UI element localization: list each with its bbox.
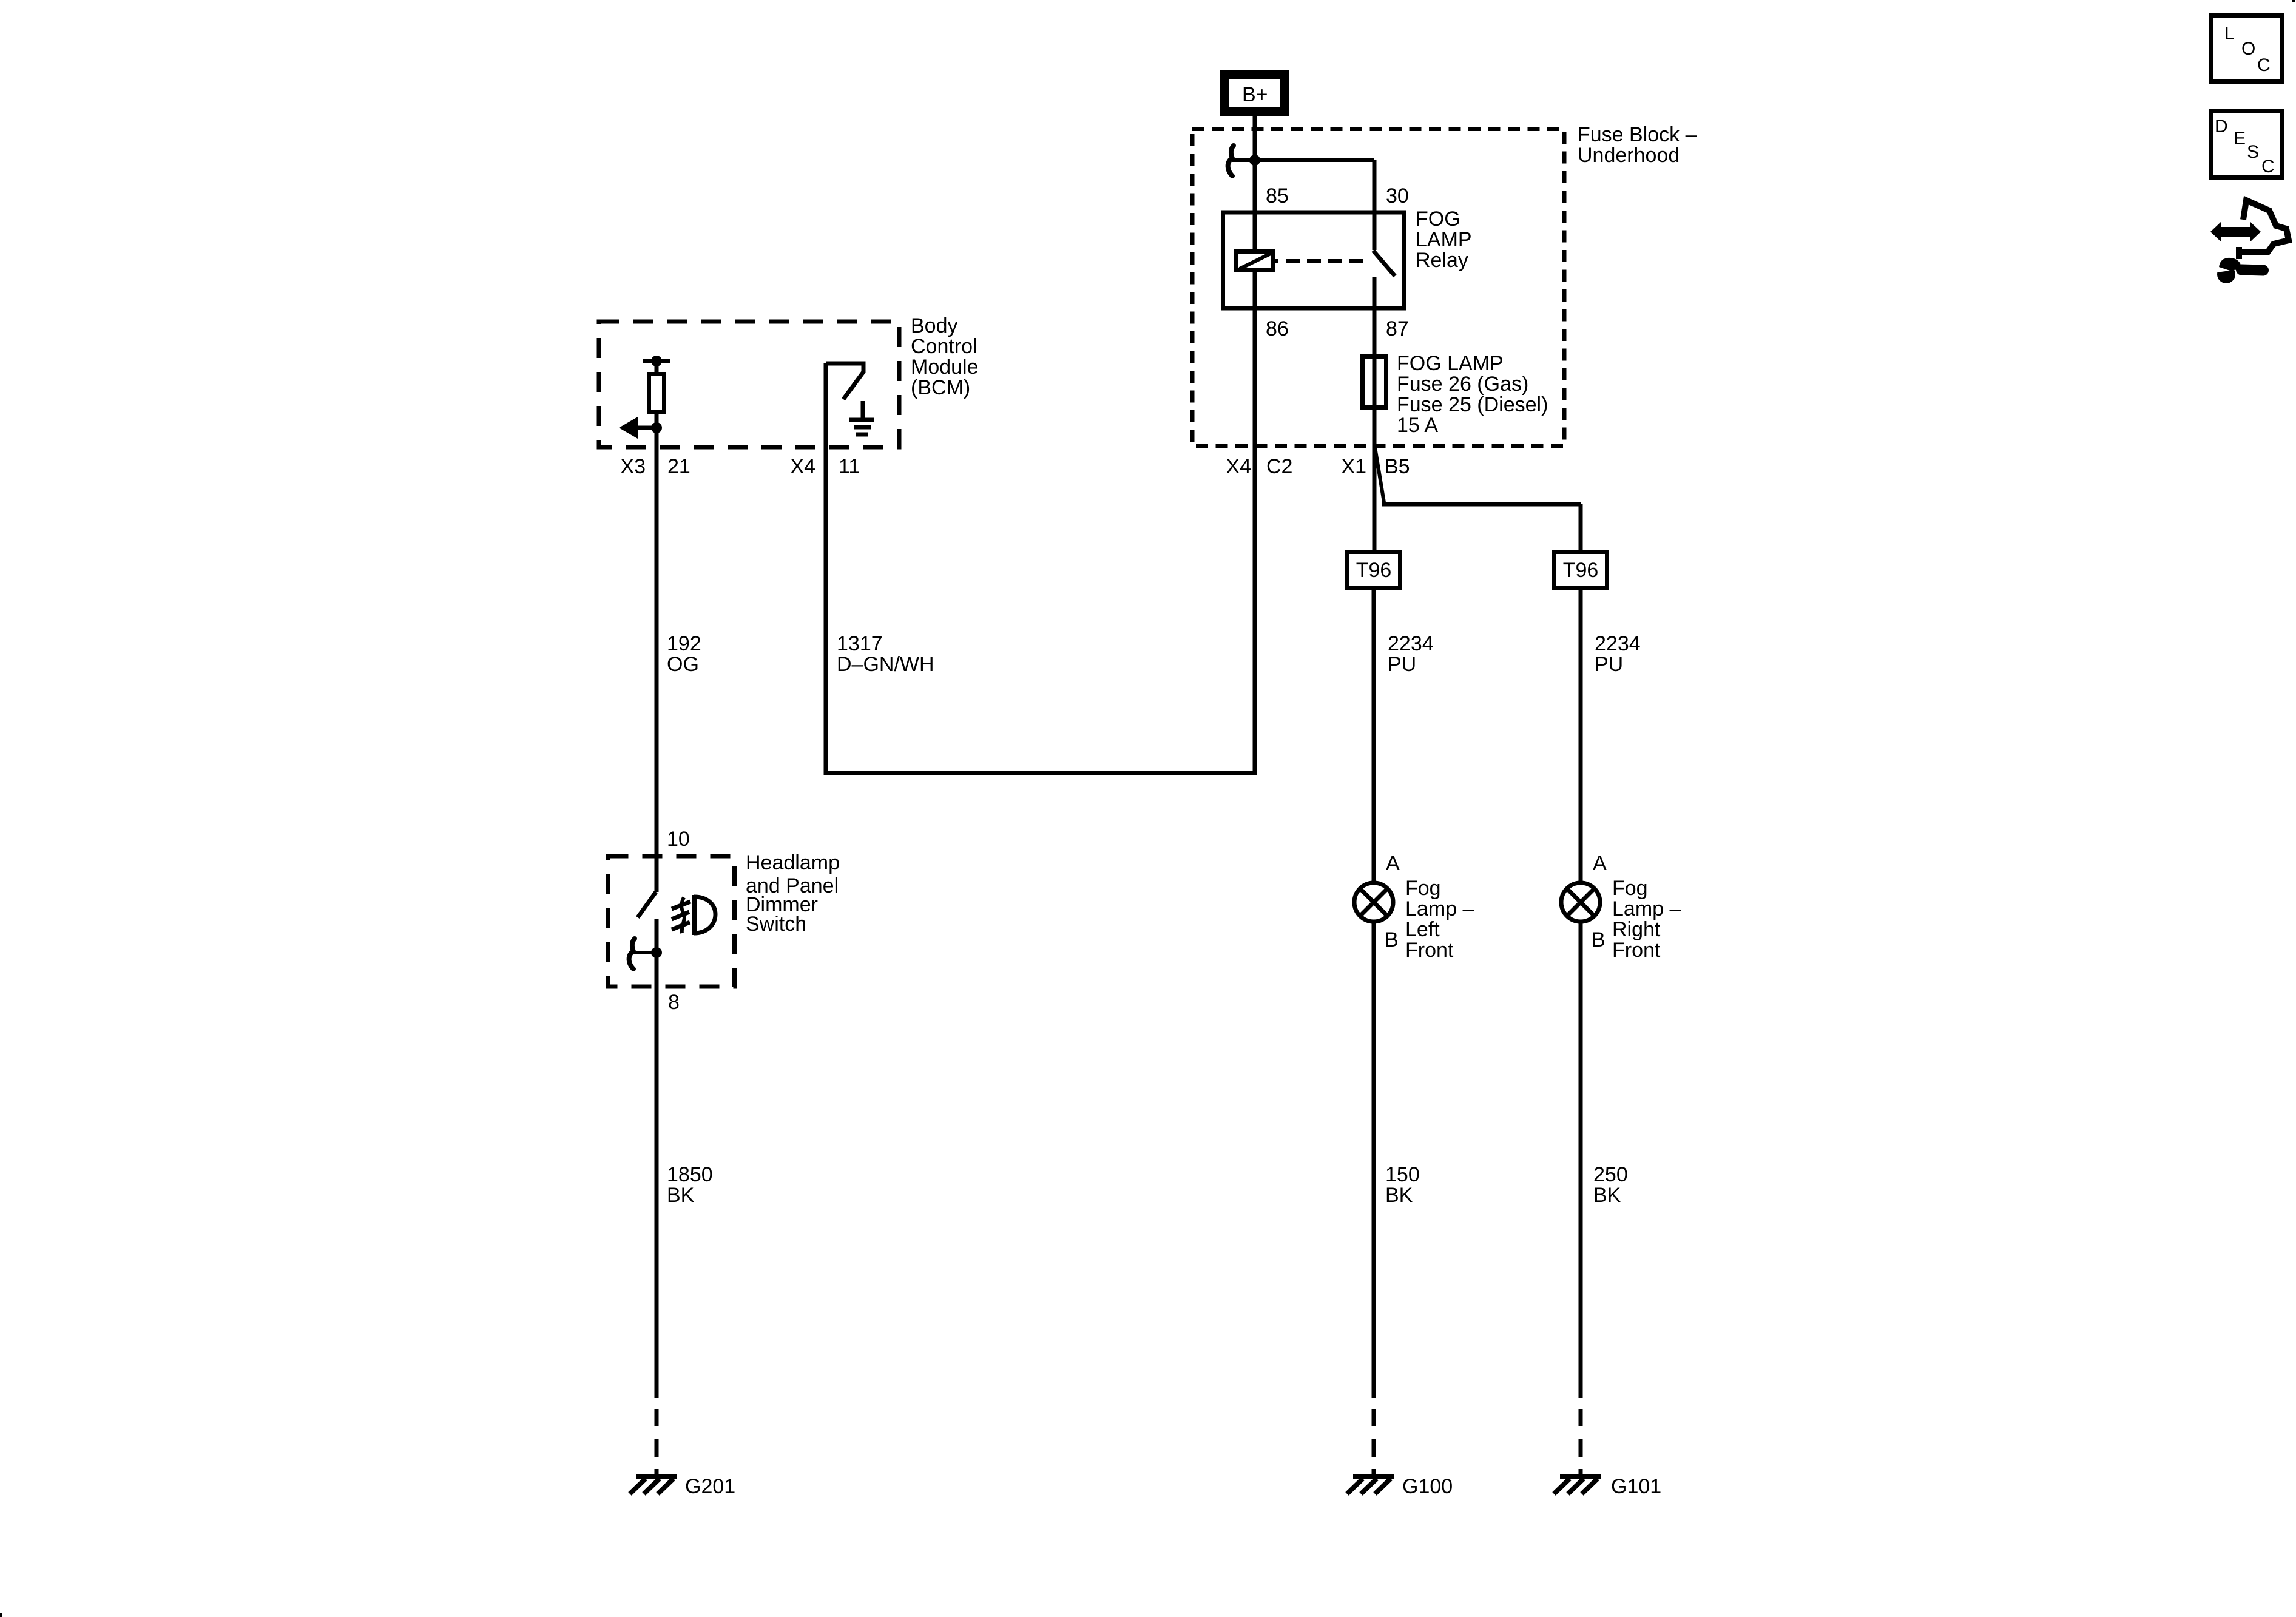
svg-text:E: E <box>2234 129 2246 149</box>
svg-text:FOG: FOG <box>1416 208 1460 231</box>
service icon: connector outline <box>2239 200 2289 259</box>
svg-text:C: C <box>2257 55 2271 75</box>
svg-text:11: 11 <box>839 455 860 478</box>
svg-text:Body: Body <box>911 314 958 337</box>
node on supply bar <box>651 356 662 366</box>
page corner mark (top right) <box>2292 0 2295 2</box>
wire right lamp to ground G101 <box>1579 923 1583 1398</box>
connector label X4 11 <box>790 455 860 478</box>
svg-text:BK: BK <box>1385 1184 1413 1207</box>
svg-text:X1: X1 <box>1341 455 1366 478</box>
svg-text:LAMP: LAMP <box>1416 228 1472 251</box>
wire from B+ down to relay coil <box>1253 116 1257 249</box>
svg-text:Fuse 25 (Diesel): Fuse 25 (Diesel) <box>1397 393 1548 416</box>
service icon: wrench <box>2215 258 2263 283</box>
ground G101 <box>1554 1477 1601 1494</box>
svg-text:PU: PU <box>1388 653 1416 676</box>
wire T96 to right fog lamp <box>1579 590 1583 882</box>
svg-text:OG: OG <box>667 653 699 676</box>
svg-text:Headlamp: Headlamp <box>746 851 840 874</box>
svg-text:G101: G101 <box>1611 1475 1661 1498</box>
wire down to right T96 <box>1579 504 1583 550</box>
wire from relay 87 through fuse to T96 <box>1373 311 1377 550</box>
svg-text:D: D <box>2215 116 2228 137</box>
svg-text:1850: 1850 <box>667 1163 713 1186</box>
svg-text:C: C <box>2261 157 2275 177</box>
svg-text:Front: Front <box>1612 939 1661 962</box>
svg-text:Left: Left <box>1405 918 1440 941</box>
svg-text:B: B <box>1592 928 1606 951</box>
connector label X1 B5 <box>1341 455 1410 478</box>
node: junction on B+ feed <box>1249 155 1260 166</box>
resistor (BCM pull-up) <box>649 374 664 413</box>
label circuit 192 OG <box>667 632 701 676</box>
svg-text:250: 250 <box>1593 1163 1628 1186</box>
connector label X3 21 <box>620 455 690 478</box>
svg-text:X4: X4 <box>1226 455 1251 478</box>
svg-text:B+: B+ <box>1242 83 1268 106</box>
relay switch blade <box>1373 251 1395 276</box>
svg-text:(BCM): (BCM) <box>911 376 970 399</box>
splice T96 (right) <box>1555 552 1607 588</box>
splice T96 (left) <box>1348 552 1400 588</box>
svg-text:2234: 2234 <box>1388 632 1434 655</box>
wire left lamp to ground G100 <box>1372 923 1376 1398</box>
svg-text:A: A <box>1386 852 1400 875</box>
label: Body Control Module (BCM) <box>911 314 979 399</box>
label circuit 2234 PU (left) <box>1388 632 1434 676</box>
svg-text:X3: X3 <box>620 455 646 478</box>
svg-text:T96: T96 <box>1356 559 1392 582</box>
label circuit 150 BK <box>1385 1163 1420 1207</box>
svg-text:D–GN/WH: D–GN/WH <box>837 653 934 676</box>
svg-text:2234: 2234 <box>1595 632 1641 655</box>
svg-text:Fuse Block –: Fuse Block – <box>1578 123 1697 146</box>
node: BCM sense junction <box>651 422 662 433</box>
svg-text:Fuse 26 (Gas): Fuse 26 (Gas) <box>1397 373 1528 396</box>
svg-text:B: B <box>1385 928 1399 951</box>
svg-text:21: 21 <box>667 455 690 478</box>
svg-text:G100: G100 <box>1402 1475 1453 1498</box>
fuse block internal bus wire (horizontal) <box>1232 158 1374 162</box>
wire BCM pin 21 down to headlamp switch <box>655 428 659 892</box>
service icon: double arrow <box>2210 221 2261 242</box>
ground G201 <box>630 1477 677 1494</box>
wire from relay coil 86 down (pin C2) <box>1253 272 1257 775</box>
svg-text:G201: G201 <box>685 1475 735 1498</box>
svg-text:Fog: Fog <box>1612 877 1648 900</box>
relay box U: FOG LAMP Relay <box>1223 212 1405 308</box>
clip symbol (switch internal) <box>629 939 635 969</box>
svg-text:S: S <box>2247 142 2259 162</box>
svg-text:85: 85 <box>1266 184 1289 208</box>
wire T96 to left fog lamp <box>1372 590 1376 882</box>
wire resistor to junction <box>655 413 659 430</box>
BCM internal ground <box>849 401 874 434</box>
svg-text:1317: 1317 <box>837 632 883 655</box>
label circuit 1850 BK <box>667 1163 713 1207</box>
svg-text:87: 87 <box>1386 317 1409 340</box>
wire branch to right fog lamp <box>1382 502 1581 507</box>
relay coil <box>1237 252 1273 270</box>
svg-text:30: 30 <box>1386 184 1409 208</box>
ground G100 <box>1347 1477 1394 1494</box>
svg-text:Front: Front <box>1405 939 1454 962</box>
signal arrow (to BCM logic) <box>619 417 657 439</box>
node: switch output junction <box>651 947 662 958</box>
BCM internal supply bar <box>643 359 670 363</box>
label circuit 2234 PU (right) <box>1595 632 1641 676</box>
wire switch contact down to G201 <box>655 919 659 1398</box>
svg-text:150: 150 <box>1385 1163 1420 1186</box>
relay fixed contact <box>1373 277 1377 311</box>
legend LOC box <box>2211 16 2282 82</box>
headlamp switch dashed box <box>609 856 735 987</box>
fog lamp right front E2 <box>1561 883 1600 922</box>
label: FOG LAMP fuse <box>1397 352 1548 437</box>
fuse FOG LAMP 15A <box>1363 357 1386 408</box>
svg-text:B5: B5 <box>1385 455 1410 478</box>
svg-text:C2: C2 <box>1266 455 1292 478</box>
svg-text:Fog: Fog <box>1405 877 1441 900</box>
label: FOG LAMP Relay <box>1416 208 1472 272</box>
BCM internal switch to ground <box>826 363 863 775</box>
wire dashed segment to G201 <box>655 1409 659 1476</box>
wire pin 30 into relay <box>1373 160 1377 250</box>
label: Headlamp and Panel Dimmer Switch <box>746 851 840 936</box>
fog lamp left front E1 <box>1354 883 1393 922</box>
label circuit 1317 D-GN/WH <box>837 632 934 676</box>
clip symbol (bus attachment) <box>1228 146 1234 176</box>
svg-text:15 A: 15 A <box>1397 414 1438 437</box>
svg-text:Switch: Switch <box>746 913 806 936</box>
svg-text:T96: T96 <box>1563 559 1599 582</box>
svg-text:Underhood: Underhood <box>1578 144 1680 167</box>
label: Fog Lamp - Left Front <box>1405 877 1474 962</box>
label circuit 250 BK <box>1593 1163 1628 1207</box>
svg-text:192: 192 <box>667 632 701 655</box>
wire splice kink below B5 <box>1375 447 1384 502</box>
svg-text:BK: BK <box>1593 1184 1621 1207</box>
wire dashed segment to G100 <box>1372 1409 1376 1476</box>
relay actuation link (dashed) <box>1275 259 1369 263</box>
wire bar to resistor <box>655 361 659 374</box>
label: Fog Lamp - Right Front <box>1612 877 1681 962</box>
svg-text:O: O <box>2241 39 2255 59</box>
legend DESC box <box>2211 111 2282 178</box>
svg-text:BK: BK <box>667 1184 695 1207</box>
svg-text:10: 10 <box>667 828 690 851</box>
svg-text:X4: X4 <box>790 455 815 478</box>
svg-text:A: A <box>1593 852 1607 875</box>
svg-text:Relay: Relay <box>1416 249 1468 272</box>
page corner mark (bottom left) <box>0 1613 2 1617</box>
svg-text:Control: Control <box>911 335 977 358</box>
svg-text:86: 86 <box>1266 317 1289 340</box>
svg-text:Lamp –: Lamp – <box>1612 897 1681 920</box>
fog lamp icon in switch <box>672 895 715 935</box>
power symbol B+ <box>1224 75 1285 112</box>
internal stub wire <box>633 951 657 954</box>
svg-text:FOG LAMP: FOG LAMP <box>1397 352 1504 375</box>
label: Fuse Block - Underhood <box>1578 123 1697 167</box>
svg-text:Right: Right <box>1612 918 1661 941</box>
svg-text:8: 8 <box>668 991 680 1014</box>
svg-text:L: L <box>2224 24 2235 44</box>
wire BCM pin 11 to fuse block pin C2 (horizontal run) <box>826 771 1255 775</box>
wire dashed segment to G101 <box>1579 1409 1583 1476</box>
Body Control Module dashed box <box>599 322 899 447</box>
headlamp switch blade <box>638 892 656 917</box>
connector label X4 C2 <box>1226 455 1292 478</box>
svg-text:Lamp –: Lamp – <box>1405 897 1474 920</box>
svg-text:PU: PU <box>1595 653 1623 676</box>
Fuse Block - Underhood dashed box <box>1192 129 1564 447</box>
svg-text:Module: Module <box>911 356 979 379</box>
